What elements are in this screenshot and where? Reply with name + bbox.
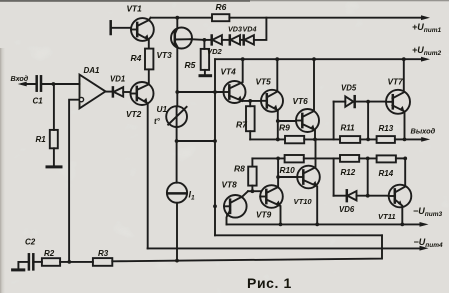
svg-text:VD4: VD4 [243,25,257,34]
resistor R6 [212,2,229,21]
resistor R9 [279,123,304,144]
svg-text:Рис. 1: Рис. 1 [247,275,292,291]
transistor VT8 [224,191,248,224]
svg-text:Вход: Вход [11,74,29,83]
ground under R5 [200,74,211,77]
wire VD1 to VT2 base [123,91,130,93]
svg-text:VT7: VT7 [388,77,404,87]
node Выход (output arrow) [405,127,436,142]
diode VD2 [204,35,222,56]
wire row A (output row) [250,138,406,142]
svg-text:VT8: VT8 [222,180,238,190]
wire C2 left lead to ground [18,262,29,270]
caption Рис. 1 [247,275,292,291]
transistor VT1 [131,18,154,49]
transistor VT2 [131,82,154,105]
svg-text:VT5: VT5 [256,77,272,87]
svg-text:VD3: VD3 [228,25,242,34]
wire U1 top branch to VT4 base [177,90,223,94]
resistor R13 [377,124,395,143]
transistor VT11 [389,158,412,224]
transistor VT6 [296,59,319,139]
resistor R12 [340,155,359,177]
wire I1 bottom to L4 bus [176,203,178,261]
resistor R5 [185,40,210,76]
diode VD4 [240,25,256,45]
wire VD5 right leg down to row A [367,102,369,140]
diode VD3 [222,25,242,45]
transistor VT4 [224,59,246,103]
svg-text:VT2: VT2 [126,109,142,119]
resistor R8 [234,158,257,191]
wire +Uпит2 rail [215,57,430,62]
node Вход (input terminal with arrow) [11,74,37,86]
svg-text:R5: R5 [185,60,196,70]
wire VT3 collector to +Uпит1 rail [176,18,178,29]
capacitor C1 [33,76,44,105]
svg-text:R1: R1 [36,135,47,144]
svg-text:R14: R14 [379,169,394,178]
wire row B [252,157,407,161]
wire VD6 right leg up to row B [367,158,369,195]
svg-text:VD5: VD5 [341,84,357,93]
resistor R14 [377,155,396,178]
transistor VT5 [261,59,283,112]
op-amp DA1 [79,66,105,108]
wire -Uпит4 rail [148,246,429,251]
wire VT10 base tap [276,175,297,179]
node -Uпит3 label [413,206,442,218]
wire +Uпит1 rail [151,15,430,20]
wire VT3/U1 vertical with branch junction [175,48,179,107]
transistor VT10 [297,139,320,224]
wire VT2 emitter down to -Uпит4 corner [147,103,149,248]
svg-text:VT6: VT6 [293,96,309,106]
node +Uпит1 label [412,22,441,34]
svg-text:R11: R11 [341,124,356,133]
svg-text:VT3: VT3 [157,50,173,60]
svg-text:R12: R12 [341,168,356,177]
svg-text:R3: R3 [98,249,109,258]
svg-text:R2: R2 [44,249,55,258]
node VT1 base terminal bar [111,21,131,34]
svg-text:VT1: VT1 [127,4,143,14]
resistor R11 [340,124,360,143]
wire VT8 collector to VT9 base with R8 junction [248,189,260,193]
svg-text:VD1: VD1 [110,75,125,84]
wire VD5 left leg down to row A [333,102,335,140]
svg-text:С2: С2 [25,238,36,247]
wire U1 bottom to I1 with branch to mid vertical [175,127,217,183]
resistor R7 [236,101,255,139]
ground under C2 [13,268,24,271]
ground under R1 [47,165,61,168]
transistor VT7 [386,59,410,139]
svg-text:С1: С1 [33,97,44,106]
wire C1 to DA1 input, junction to R1 [41,82,80,86]
transistor VT9 [260,158,283,224]
diode VD5 (parallel R11) [334,84,386,108]
capacitor C2 [25,238,36,270]
svg-text:R7: R7 [236,120,248,130]
resistor R2 [42,249,60,266]
svg-text:VT4: VT4 [221,67,237,77]
svg-text:R4: R4 [131,53,142,63]
wire VT3 emitter to R5/VD2 junction [191,38,207,42]
svg-text:t°: t° [154,117,161,126]
resistor R1 [36,84,58,167]
svg-text:U1: U1 [157,104,168,114]
wire R3 to right corner (L4 bottom bus) [112,235,382,262]
diode VD1 [110,75,125,97]
svg-text:R8: R8 [234,164,245,174]
wire VT4 emitter to VT5 base with R7 tap [242,99,261,103]
svg-text:VD6: VD6 [339,205,355,214]
resistor R3 [93,249,112,266]
diode VD6 (parallel R12) [334,190,389,214]
node +Uпит2 label [412,45,441,57]
wire DA1 output to VD1 [106,91,113,93]
svg-text:R13: R13 [379,124,394,133]
wire VD6 left leg up to row B [333,158,335,195]
svg-text:R9: R9 [279,123,290,133]
svg-text:R6: R6 [216,2,227,12]
wire VD4 to +Uпит1 rail corner [254,18,267,40]
wire C2 to R2 [33,261,42,263]
wire VT6 base line [278,120,296,122]
wire mid vertical x=215 (rail corner down to L2) [213,59,217,235]
svg-text:VT11: VT11 [378,212,396,221]
svg-text:Выход: Выход [411,127,436,136]
transistor VT3 [157,28,193,61]
resistor R4 [131,49,154,70]
wire R2 to R3 through feedback junction [60,261,93,263]
current source I1 [167,183,195,203]
wire VT5 emitter down through VT6 base junction to row A [276,110,280,141]
node -Uпит4 label [414,237,443,249]
wire L2 bus (mid vertical to right corner) [215,234,382,236]
svg-text:VT9: VT9 [256,210,272,220]
component U1 (thermal reference) [154,104,187,127]
wire R4 to VT2 collector [148,69,150,84]
svg-text:DA1: DA1 [84,66,101,75]
svg-text:VD2: VD2 [207,47,223,56]
wire -Uпит3 rail (emitter row) [227,222,429,227]
svg-text:R10: R10 [280,165,296,175]
wire DA1 inverting input feedback (down to bottom row) [67,100,79,264]
svg-text:VT10: VT10 [294,197,313,206]
resistor R10 [280,155,304,175]
